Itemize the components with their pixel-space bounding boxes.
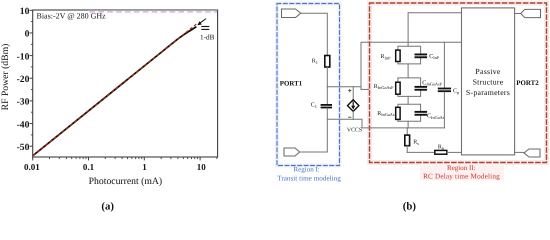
- svg-text:0.01: 0.01: [24, 162, 40, 172]
- svg-text:Region II:: Region II:: [447, 164, 476, 172]
- plot frame: [33, 10, 218, 157]
- svg-text:CInGaAsP: CInGaAsP: [422, 80, 442, 86]
- x-axis minor ticks: [50, 157, 217, 159]
- svg-text:VCCS: VCCS: [347, 128, 362, 134]
- svg-text:RF Power (dBm): RF Power (dBm): [0, 44, 11, 111]
- y-axis major ticks: [30, 10, 33, 146]
- PORT2 label: [516, 80, 539, 87]
- wire top-left pad to node: [301, 13, 328, 55]
- resistor R1: [312, 56, 330, 68]
- svg-text:-30: -30: [17, 97, 30, 108]
- wire row3 to bottom rail: [407, 121, 409, 128]
- svg-text:RInGaAsP: RInGaAsP: [374, 84, 394, 90]
- wire C1 to bottom pad: [300, 108, 328, 152]
- pad P2 top: [521, 9, 541, 17]
- svg-text:PORT1: PORT1: [280, 81, 303, 88]
- resistor R_InGaAsP: [374, 82, 400, 94]
- pad P1 top (input pad): [282, 9, 301, 18]
- PANEL A CHART: [0, 6, 218, 213]
- ideal linear fit (red dashed): [33, 24, 197, 156]
- wire VCCS bottom stub: [352, 111, 354, 119]
- resistor R_s: [405, 128, 419, 152]
- capacitor C1: [311, 103, 332, 109]
- capacitor C_InGaAs: [415, 111, 445, 120]
- svg-text:(a): (a): [101, 201, 114, 213]
- svg-text:10: 10: [197, 162, 207, 172]
- svg-text:C1: C1: [311, 103, 317, 109]
- svg-text:-20: -20: [17, 74, 30, 85]
- capacitor C_p branch: [438, 42, 459, 128]
- wire row1 to row2: [407, 64, 409, 78]
- Region II dashed box: [370, 3, 547, 163]
- Region I dashed box: [277, 4, 340, 166]
- y-axis minor ticks: [31, 22, 33, 135]
- x tick labels: [24, 162, 206, 172]
- wire row2 to row3: [407, 96, 409, 104]
- wire VCCS to bottom rail step: [353, 119, 362, 128]
- y tick labels: [17, 6, 30, 153]
- saturation dashed pink line: [90, 11, 218, 14]
- wire stub right of node A: [361, 88, 369, 90]
- wire chain top to passive box: [408, 13, 461, 47]
- svg-text:0.1: 0.1: [83, 162, 95, 172]
- wire box to top-right pad: [515, 13, 521, 15]
- svg-text:-10: -10: [17, 51, 30, 62]
- node A horizontal wire: [327, 86, 361, 88]
- svg-text:Rp: Rp: [438, 144, 444, 150]
- passive structure S-parameter box: [462, 8, 515, 155]
- svg-text:0: 0: [25, 29, 30, 40]
- pad P2 bottom: [524, 149, 540, 157]
- wire box to bottom-right pad: [515, 151, 524, 153]
- y axis title: [0, 44, 11, 111]
- PORT1 label: [280, 81, 303, 88]
- resistor R_InGaAs: [377, 107, 400, 119]
- wire node A up-link vertical: [361, 42, 462, 89]
- wire R_p to passive box: [447, 151, 462, 153]
- wire VCCS top stub: [352, 87, 354, 100]
- RC pair row3 loop: [398, 104, 421, 121]
- svg-text:RInP: RInP: [381, 54, 392, 60]
- svg-text:PORT2: PORT2: [516, 80, 539, 87]
- svg-text:1: 1: [142, 162, 147, 172]
- bias annotation: [37, 11, 107, 20]
- caption (b): [403, 201, 417, 213]
- svg-text:1-dB: 1-dB: [200, 33, 215, 41]
- svg-text:CInGaAs: CInGaAs: [427, 114, 445, 120]
- svg-text:Passive: Passive: [475, 67, 500, 76]
- svg-text:RC Delay time Modeling: RC Delay time Modeling: [423, 173, 500, 181]
- svg-text:-40: -40: [17, 119, 30, 130]
- svg-text:10: 10: [20, 6, 30, 17]
- svg-text:CInP: CInP: [429, 54, 440, 60]
- svg-text:(b): (b): [403, 201, 417, 213]
- RC pair row1 loop: [398, 46, 421, 64]
- RC pair row2 loop: [398, 78, 421, 97]
- plus polarity mark: [349, 89, 351, 91]
- 1-dB compression annotation: [197, 19, 214, 42]
- svg-text:RInGaAs: RInGaAs: [377, 111, 395, 117]
- svg-text:Structure: Structure: [473, 77, 504, 86]
- caption (a): [101, 201, 114, 213]
- wire R_s to R_p: [407, 151, 435, 153]
- svg-text:-50: -50: [17, 142, 30, 153]
- capacitor C_InP: [415, 54, 440, 61]
- svg-text:S-parameters: S-parameters: [466, 88, 510, 97]
- wire VCCS bottom to left rail: [327, 118, 353, 120]
- svg-text:Cp: Cp: [453, 89, 459, 95]
- resistor R_p: [435, 144, 447, 154]
- bottom rail wire: [362, 127, 444, 129]
- x axis title: [89, 176, 162, 187]
- x-axis major ticks: [33, 157, 200, 160]
- Region I caption: [277, 165, 341, 182]
- measured data line (black): [33, 27, 196, 156]
- svg-text:Photocurrent (mA): Photocurrent (mA): [89, 176, 162, 187]
- svg-text:Bias:-2V @ 280 GHz: Bias:-2V @ 280 GHz: [37, 11, 107, 20]
- svg-text:R1: R1: [312, 59, 318, 65]
- pad P1 bottom (ground pad): [284, 148, 300, 156]
- VCCS current source U1: [347, 100, 362, 134]
- capacitor C_InGaAsP: [415, 80, 443, 90]
- wire R1 to node A: [326, 67, 328, 87]
- wire node A down to C1: [326, 87, 328, 104]
- resistor R_InP: [381, 50, 401, 61]
- Region II caption: [420, 164, 504, 181]
- svg-text:Region I:: Region I:: [293, 165, 319, 173]
- minus polarity mark: [349, 116, 351, 118]
- svg-text:Transit time modeling: Transit time modeling: [277, 174, 341, 182]
- svg-text:Rs: Rs: [413, 140, 419, 146]
- PANEL B CIRCUIT: [277, 3, 547, 213]
